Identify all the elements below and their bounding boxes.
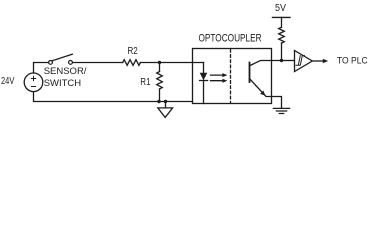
svg-text:R2: R2: [128, 45, 138, 56]
svg-text:SENSOR/: SENSOR/: [44, 66, 87, 77]
svg-text:TO PLC: TO PLC: [337, 55, 368, 66]
svg-text:SWITCH: SWITCH: [44, 78, 82, 89]
svg-text:5V: 5V: [275, 2, 286, 14]
svg-text:24V: 24V: [1, 75, 14, 86]
svg-text:OPTOCOUPLER: OPTOCOUPLER: [199, 32, 262, 44]
svg-text:R1: R1: [140, 76, 150, 87]
